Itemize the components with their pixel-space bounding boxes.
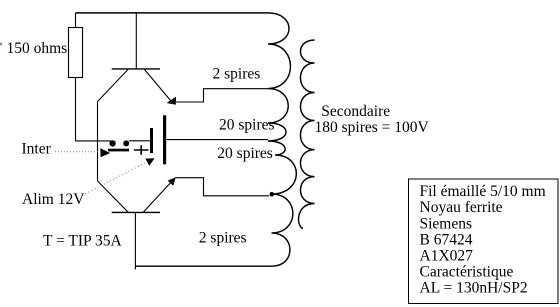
svg-text:20 spires: 20 spires	[219, 116, 275, 133]
svg-text:Alim 12V: Alim 12V	[22, 191, 85, 208]
svg-text:20 spires: 20 spires	[217, 145, 273, 162]
svg-text:AL = 130nH/SP2: AL = 130nH/SP2	[420, 280, 528, 297]
svg-text:T = TIP 35A: T = TIP 35A	[43, 233, 122, 250]
svg-text:Inter: Inter	[22, 141, 52, 158]
svg-text:Fil émaillé 5/10 mm: Fil émaillé 5/10 mm	[420, 183, 546, 200]
svg-text:2 spires: 2 spires	[213, 65, 261, 82]
svg-text:A1X027: A1X027	[420, 248, 474, 265]
svg-text:Siemens: Siemens	[420, 215, 473, 232]
svg-text:B 67424: B 67424	[420, 231, 473, 248]
svg-text:2 spires: 2 spires	[199, 230, 247, 247]
svg-text:Secondaire: Secondaire	[321, 103, 390, 120]
svg-text:Caractéristique: Caractéristique	[420, 264, 514, 281]
svg-text:150 ohms: 150 ohms	[7, 40, 68, 57]
svg-text:Noyau ferrite: Noyau ferrite	[420, 199, 503, 216]
svg-text:180 spires = 100V: 180 spires = 100V	[315, 119, 430, 136]
